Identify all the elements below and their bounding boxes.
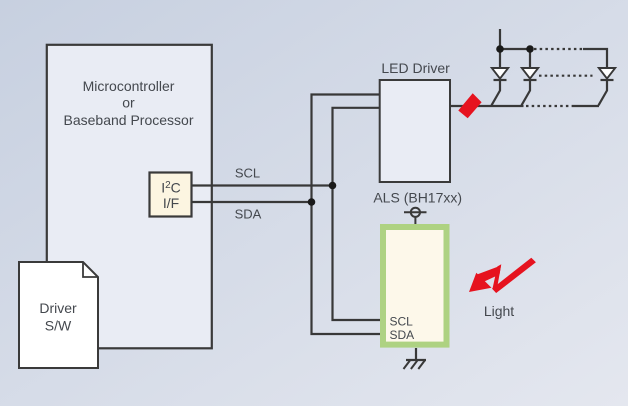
svg-text:Baseband Processor: Baseband Processor — [64, 112, 194, 128]
svg-text:I2C: I2C — [161, 180, 181, 196]
wire SDA from I2C I/F to bus — [193, 201, 312, 203]
I2C I/F block — [150, 173, 192, 217]
svg-text:S/W: S/W — [45, 318, 72, 334]
wire LED cathode top rail — [500, 29, 607, 68]
junction dot LED rail 2 — [526, 45, 534, 53]
junction dot SDA — [308, 198, 316, 206]
LED driver block — [380, 80, 450, 182]
light arrow (red) — [469, 258, 536, 293]
microcontroller block — [47, 45, 212, 349]
label Light — [484, 303, 514, 319]
svg-text:Light: Light — [484, 303, 514, 319]
wire LED driver output (anode rail) — [450, 105, 599, 107]
junction dot SCL — [329, 182, 337, 190]
svg-text:I/F: I/F — [163, 195, 179, 211]
svg-text:SCL: SCL — [390, 314, 414, 328]
label ALS (BH17xx) — [373, 190, 462, 206]
wire SDA bus (LED Driver to ALS SDA pin) — [312, 95, 387, 335]
VDD terminal of ALS — [404, 208, 427, 225]
label SCL — [235, 166, 260, 181]
LED current marker (red) — [458, 93, 481, 118]
ground — [404, 348, 427, 369]
label LED Driver — [381, 60, 450, 76]
junction dot LED rail 1 — [496, 45, 504, 53]
svg-text:SDA: SDA — [390, 328, 415, 342]
LED Dn — [599, 68, 616, 105]
svg-text:ALS (BH17xx): ALS (BH17xx) — [373, 190, 462, 206]
ALS sensor block BH17xx — [383, 227, 447, 345]
label SDA — [235, 207, 262, 222]
svg-text:or: or — [122, 95, 135, 111]
driver S/W document — [19, 262, 98, 368]
svg-text:LED Driver: LED Driver — [381, 60, 450, 76]
svg-text:SCL: SCL — [235, 166, 260, 181]
svg-text:Microcontroller: Microcontroller — [83, 78, 175, 94]
dotted continuation (more LEDs) — [539, 75, 593, 77]
wire SCL from I2C I/F to bus — [193, 184, 333, 186]
wire SCL bus (LED Driver to ALS SCL pin) — [333, 108, 387, 320]
LED D1 — [492, 68, 509, 105]
svg-text:SDA: SDA — [235, 207, 262, 222]
svg-text:Driver: Driver — [39, 300, 77, 316]
LED D2 — [522, 68, 539, 105]
